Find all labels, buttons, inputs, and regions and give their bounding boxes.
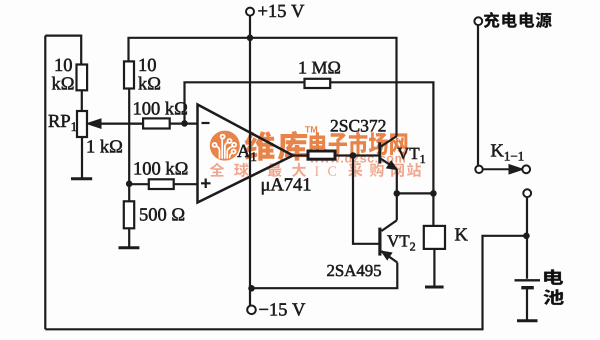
wire VT1 emitter down to node E	[396, 169, 398, 193]
terminal -15V	[247, 306, 256, 315]
watermark logo circle	[210, 131, 240, 161]
wire node B down to 500ohm and ground	[128, 184, 130, 202]
wire charging source down to switch	[477, 25, 479, 166]
label K1-1	[491, 144, 504, 156]
node B junction	[126, 181, 133, 188]
wire bottom rail	[45, 236, 526, 329]
label 500 Ohm	[140, 208, 184, 220]
wire op-amp output to base resistor	[293, 154, 308, 156]
wire feedback: minus node up and 1M to node D	[185, 82, 305, 123]
wire node C down to VT2 base	[353, 156, 379, 244]
label uA741	[262, 178, 310, 194]
wire node B to 100k lower	[129, 183, 149, 185]
node minus-input junction	[181, 120, 188, 127]
wire +15V vertical through op-amp	[249, 16, 251, 306]
label K	[455, 228, 468, 240]
wire node D down to relay K	[432, 193, 434, 226]
node battery junction	[523, 233, 530, 240]
wire VT2 emitter down to -15V rail	[252, 263, 398, 289]
wire node E to node D	[397, 192, 434, 194]
wire chain B: 10k down to node B	[128, 89, 130, 184]
label A1	[237, 145, 250, 157]
relay coil K box	[424, 226, 445, 249]
wire base resistor to VT1 base	[335, 154, 379, 156]
wire top +15V rail	[129, 38, 397, 136]
wire 100k lower to op-amp plus input	[174, 183, 198, 185]
switch contact right	[522, 165, 530, 173]
wire RP1 wiper to 100k upper	[90, 122, 144, 124]
label 10 kOhm right	[140, 59, 156, 71]
label RP1	[49, 115, 70, 127]
battery bottom bar	[517, 319, 538, 322]
label 1 kOhm	[88, 140, 122, 153]
wire left rail	[44, 36, 46, 330]
watermark www.dzsc.com	[309, 153, 404, 162]
battery negative plate	[521, 286, 534, 289]
label +15 V	[258, 5, 304, 17]
resistor base Rb (thick)	[308, 151, 335, 159]
ground under RP1	[71, 177, 92, 180]
label VT1	[397, 148, 419, 159]
switch K1-1 arm with arrow	[483, 165, 522, 173]
op-amp plus sign	[201, 179, 211, 189]
wire relay K to ground	[433, 249, 435, 286]
wire battery mid	[526, 289, 528, 320]
switch lower terminal	[523, 189, 531, 197]
wire chain A: 10k to RP1 to ground	[81, 90, 83, 111]
label 100 kOhm upper	[134, 102, 187, 115]
label -15 V	[259, 303, 305, 315]
op-amp A1 triangle	[198, 105, 294, 203]
transistor VT2 emitter with arrow (PNP)	[382, 251, 398, 262]
node C base junction	[350, 152, 357, 159]
ground under relay K	[425, 286, 444, 289]
label 10 kOhm left	[56, 59, 72, 71]
terminal +15V	[246, 8, 254, 16]
wire switch lower terminal down to battery	[526, 197, 528, 279]
battery positive plate	[515, 279, 541, 281]
watermark title 电子市场网	[310, 132, 408, 155]
watermark TM	[305, 126, 317, 132]
ground under 500ohm	[119, 246, 140, 249]
label battery 电池	[544, 269, 563, 284]
resistor 1M R6	[305, 79, 331, 88]
node +15V junction	[247, 35, 254, 42]
transistor VT2 collector	[382, 220, 397, 231]
resistor 100k upper R3	[143, 118, 170, 128]
resistor 10k left R1	[77, 65, 88, 91]
label VT2	[387, 235, 409, 246]
wire top-left segment	[45, 36, 81, 65]
node D junction	[430, 190, 437, 197]
op-amp minus sign	[202, 122, 210, 124]
transistor VT1 emitter with arrow	[381, 159, 397, 170]
transistor VT1 bar	[378, 142, 381, 163]
node E junction	[394, 190, 401, 197]
wire 100k upper to op-amp minus input	[170, 122, 198, 124]
resistor 500ohm R5	[124, 201, 134, 228]
transistor VT1 collector	[381, 136, 397, 147]
wire node E down to VT2 collector	[396, 193, 398, 220]
resistor 10k right R2	[124, 61, 134, 88]
potentiometer RP1 wiper arrow	[89, 120, 144, 128]
node -15V junction	[248, 285, 255, 292]
terminal charging source	[474, 17, 482, 25]
resistor 100k lower R4	[149, 179, 174, 189]
watermark title 维库	[245, 131, 308, 161]
label 2SA495	[327, 265, 381, 276]
watermark slogan row	[210, 163, 306, 177]
label 2SC372	[331, 120, 386, 132]
label 1 MOhm	[300, 62, 340, 74]
label 100 kOhm lower	[135, 162, 188, 175]
potentiometer RP1 body	[77, 111, 87, 137]
switch contact left	[475, 166, 482, 173]
transistor VT2 bar	[378, 228, 381, 256]
label charging source 充电电源	[484, 12, 552, 28]
